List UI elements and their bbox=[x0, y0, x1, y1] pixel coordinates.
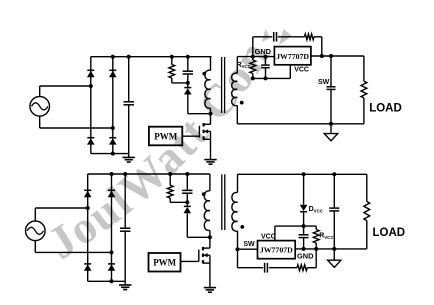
svg-text:VCC: VCC bbox=[261, 234, 276, 241]
svg-text:LOAD: LOAD bbox=[373, 227, 406, 239]
svg-text:JW7707D: JW7707D bbox=[276, 52, 309, 61]
svg-text:LOAD: LOAD bbox=[369, 103, 402, 115]
svg-text:PWM: PWM bbox=[153, 258, 176, 268]
svg-text:SW: SW bbox=[243, 241, 255, 248]
svg-text:GND: GND bbox=[255, 47, 272, 56]
svg-text:PWM: PWM bbox=[154, 131, 177, 141]
svg-text:GND: GND bbox=[297, 252, 314, 261]
svg-text:SW: SW bbox=[318, 79, 330, 86]
svg-text:JW7707D: JW7707D bbox=[260, 246, 293, 255]
svg-text:VCC: VCC bbox=[294, 67, 309, 74]
